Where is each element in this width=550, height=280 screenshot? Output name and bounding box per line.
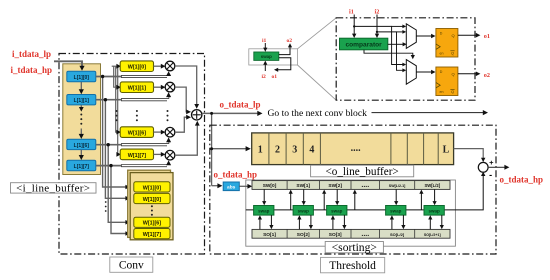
svg-text:en: en [440, 52, 444, 56]
swap symbol green box [254, 52, 279, 60]
svg-text:SW[2]: SW[2] [328, 183, 342, 189]
wire mux2 to FF2 [416, 71, 431, 73]
SO register row [252, 229, 450, 238]
dots in i_line_buffer [80, 114, 82, 116]
wire multiplier M1 to adder left-upper [175, 87, 187, 112]
arrow into W[1][7] [117, 153, 119, 155]
svg-text:<o_line_buffer>: <o_line_buffer> [325, 166, 398, 178]
dots arrow column [116, 110, 118, 112]
wire FF1 to o1 [458, 34, 476, 36]
label box sorting [325, 242, 383, 253]
comparator U-cmp [340, 38, 388, 50]
abs box [223, 182, 239, 191]
dots bundle bottom [105, 201, 107, 203]
svg-text:<sorting>: <sorting> [332, 241, 377, 254]
svg-text:W[1][1]: W[1][1] [128, 86, 146, 92]
wire L cell to subtractor [454, 149, 484, 159]
dots weight stack [151, 205, 153, 207]
svg-text:....: .... [351, 143, 362, 154]
arrow SW into swap S5 [434, 189, 436, 202]
swap box S5 [424, 206, 444, 216]
svg-text:swap: swap [428, 209, 440, 214]
label box Threshold [321, 257, 385, 272]
swap box S1 [254, 206, 274, 216]
wire abs to sorting [239, 185, 248, 187]
wire i1 down into comparator [353, 15, 355, 35]
wire bundle V3 from L-row2 down to weight stack [108, 145, 126, 223]
wire L-row2 data to multiplier [96, 144, 122, 146]
weight stack front sheet [130, 173, 173, 240]
label box i_line_buffer [11, 183, 97, 193]
arrow between L[1][6] and L[1][7] [80, 150, 82, 156]
svg-text:SO[3]: SO[3] [329, 232, 342, 238]
svg-text:1: 1 [258, 144, 263, 155]
svg-text:en: en [440, 90, 444, 94]
arrow SW into swap S4 [395, 189, 397, 202]
svg-text:i_tdata_lp: i_tdata_lp [12, 49, 51, 59]
svg-text:SO[L/2]: SO[L/2] [390, 232, 405, 237]
swap box S2 [293, 206, 313, 216]
svg-text:SW[0]: SW[0] [263, 183, 277, 189]
wire comparator to mux1 select [388, 43, 403, 45]
arrow into L[1][6] [80, 129, 82, 135]
arrow SO up into swap S1 [259, 218, 261, 229]
svg-text:L[1][6]: L[1][6] [74, 143, 90, 149]
arrow swap output up into SW (jog 2) [323, 193, 325, 210]
svg-text:o_tdata_hp: o_tdata_hp [500, 175, 544, 185]
dots W column [136, 110, 138, 112]
svg-text:i1: i1 [349, 9, 354, 16]
register L[1][6] [67, 139, 96, 149]
wire subtractor to o_tdata_hp [488, 166, 505, 168]
arrow swap output up into SW (jog 4) [420, 193, 422, 210]
o_line_buffer cell dividers [268, 133, 270, 165]
wire bundle V4 from L-row3 down to weight stack [111, 166, 126, 234]
arrow SO up into swap S4 [391, 218, 393, 229]
arrow SO up into swap S2 [298, 218, 300, 229]
arrow SW into swap S1 [263, 189, 265, 202]
weight stack back sheet [128, 170, 171, 237]
svg-text:....: .... [361, 231, 369, 238]
svg-text:o1: o1 [484, 33, 490, 40]
arrow into W[1][6] [117, 131, 119, 133]
svg-text:W[1][6]: W[1][6] [128, 131, 146, 137]
sorting outer box [246, 180, 456, 246]
svg-text:SO[1]: SO[1] [263, 232, 276, 238]
svg-text:3: 3 [292, 144, 297, 155]
svg-text:o_tdata_lp: o_tdata_lp [220, 99, 261, 109]
wire L-row3 data to multiplier [96, 165, 122, 167]
adder U-add [192, 110, 202, 120]
coefficient box W[1][1] [120, 82, 153, 93]
svg-text:W[1][0]: W[1][0] [143, 185, 161, 191]
wire mux1 to FF1 [416, 35, 431, 37]
svg-text:i2: i2 [262, 74, 267, 80]
svg-text:SO[2]: SO[2] [297, 232, 310, 238]
stack coefficient box W[1][0] r2 [134, 193, 170, 203]
arrow into W[1][1] [117, 86, 119, 88]
i_line_buffer container [63, 64, 101, 175]
stack coefficient box W[1][6] r3 [134, 217, 170, 227]
wire W-feed vertical to y132.1 [116, 66, 118, 132]
svg-text:o2: o2 [287, 38, 293, 44]
svg-text:o1: o1 [272, 74, 278, 80]
svg-text:<i_line_buffer>: <i_line_buffer> [16, 182, 90, 194]
svg-text:SO[L/2+1]: SO[L/2+1] [424, 233, 441, 237]
wire multiplier M6 to adder left-lower [175, 117, 187, 132]
block Threshold dash-dot border [210, 125, 496, 254]
svg-text:SW[L/2-1]: SW[L/2-1] [389, 184, 406, 188]
wire swap to o2 [279, 47, 290, 55]
wire bundle V2 from L-row1 down to weight stack [105, 100, 126, 199]
arrow W[1][7] to multiplier [154, 153, 162, 155]
arrow into W[1][0] [117, 65, 119, 67]
svg-text:L[1][1]: L[1][1] [74, 98, 90, 104]
svg-text:Conv: Conv [119, 260, 144, 272]
svg-text:Threshold: Threshold [329, 260, 376, 272]
wire o_tdata_lp from adder [202, 112, 258, 114]
wire i_tdata input into line buffer [54, 61, 82, 66]
o_line_buffer container [252, 133, 454, 165]
svg-text:i1: i1 [262, 38, 267, 44]
wire L-row1 data to multiplier [96, 99, 122, 101]
svg-text:swap: swap [331, 209, 343, 214]
swap symbol outer box [249, 49, 298, 65]
wire bundle V1 from L-row0 down to weight stack [103, 77, 127, 188]
wire i2 branch to mux inputs [377, 32, 403, 70]
svg-text:swap: swap [261, 54, 272, 59]
multiplier M3 [165, 150, 175, 160]
coefficient box W[1][7] [120, 149, 153, 160]
wire i2 into swap [264, 65, 266, 72]
svg-text:swap: swap [390, 209, 402, 214]
wire multiplier M0 to adder top [175, 66, 197, 105]
svg-text:Q: Q [451, 72, 454, 77]
dots multiplier column [167, 110, 169, 112]
wire W-feed vertical to y87.2 [114, 66, 118, 87]
svg-text:L[1][7]: L[1][7] [74, 164, 90, 170]
svg-text:Q: Q [451, 51, 454, 56]
register L[1][0] [67, 71, 96, 81]
arrow SO up into swap S3 [332, 218, 334, 229]
svg-text:abs: abs [227, 184, 236, 190]
svg-text:L: L [443, 144, 450, 155]
svg-text:W[1][6]: W[1][6] [143, 221, 161, 227]
subtractor node [478, 162, 488, 172]
svg-text:Q: Q [451, 89, 454, 94]
multiplier M1 [165, 82, 175, 92]
svg-text:D: D [440, 32, 443, 36]
wire i1 branch to mux inputs [354, 26, 402, 64]
arrow swap S5 down to SO [441, 215, 443, 226]
mux MX2 [406, 60, 416, 85]
arrow swap S4 down to SO [402, 215, 404, 226]
svg-text:i_tdata_hp: i_tdata_hp [11, 65, 53, 75]
SW register row [252, 181, 450, 190]
register L[1][1] [67, 95, 96, 105]
wire swap bus to subtractor [246, 175, 483, 210]
flip-flop FF1 [436, 29, 458, 58]
arrow swap output up into SW (jog 1) [290, 193, 292, 210]
svg-text:-: - [489, 170, 492, 180]
svg-text:swap: swap [298, 209, 310, 214]
wire i2 down into comparator [376, 15, 378, 35]
wire i1 into swap [264, 43, 266, 48]
coefficient box W[1][0] [120, 61, 153, 72]
multiplier M2 [165, 127, 175, 137]
arrow go to next conv block [372, 112, 484, 114]
svg-text:L[1][0]: L[1][0] [74, 75, 90, 81]
svg-text:W[1][7]: W[1][7] [143, 232, 161, 238]
wire multiplier M7 to adder bottom [175, 125, 198, 156]
wire W-feed vertical to y154.4 [117, 66, 119, 154]
detail block dash-dot border [336, 18, 475, 100]
wire into o_line_buffer [212, 148, 247, 150]
stack coefficient box W[1][7] r4 [134, 229, 170, 239]
svg-text:4: 4 [309, 144, 314, 155]
arrow swap S1 down to SO [270, 215, 272, 226]
label box o_line_buffer [311, 165, 414, 177]
register L[1][7] [67, 160, 96, 170]
arrow W[1][6] to multiplier [154, 131, 162, 133]
coefficient box W[1][6] [120, 127, 153, 138]
arrow W[1][1] to multiplier [154, 86, 162, 88]
svg-text:swap: swap [258, 209, 270, 214]
wire L-row0 data to multiplier [96, 76, 122, 78]
svg-text:SW[1]: SW[1] [296, 183, 310, 189]
stack coefficient box W[1][0] r1 [134, 182, 170, 192]
flip-flop FF2 [436, 67, 458, 96]
svg-text:comparator: comparator [345, 42, 382, 49]
arrow swap S3 down to SO [343, 215, 345, 226]
svg-text:D: D [440, 70, 443, 74]
wire FF2 to o2 [458, 73, 476, 75]
wire branch down to o_line_buffer and abs [211, 113, 213, 185]
block Conv dash-dot border [59, 54, 205, 255]
svg-text:o2: o2 [484, 72, 490, 79]
arrow W[1][0] to multiplier [154, 65, 162, 67]
svg-text:Q: Q [451, 33, 454, 38]
arrow SO up into swap S5 [429, 218, 431, 229]
swap box S4 [386, 206, 406, 216]
svg-text:SW[L/2]: SW[L/2] [425, 183, 441, 188]
wire comparator to mux2 select [364, 50, 413, 56]
svg-text:2: 2 [275, 144, 280, 155]
wire W-feed stub top [112, 65, 118, 67]
stub below L[1][1] [80, 105, 82, 108]
multiplier M0 [165, 61, 175, 71]
arrow between L[1][0] and L[1][1] [80, 82, 82, 90]
arrow swap output up into SW (jog 3) [354, 193, 356, 210]
svg-text:o_tdata_hp: o_tdata_hp [214, 169, 258, 179]
arrow swap S2 down to SO [310, 215, 312, 226]
svg-text:W[1][7]: W[1][7] [128, 153, 146, 159]
svg-text:W[1][0]: W[1][0] [143, 197, 161, 203]
svg-text:+: + [489, 158, 494, 167]
swap box S3 [327, 206, 347, 216]
svg-text:W[1][0]: W[1][0] [128, 65, 146, 71]
svg-text:....: .... [361, 182, 369, 189]
arrow SW into swap S2 [303, 189, 305, 202]
arrow SW into swap S3 [336, 189, 338, 202]
zoom connector lines [298, 18, 337, 49]
label box Conv [110, 257, 153, 272]
wire into abs [212, 185, 218, 187]
mux MX1 [406, 24, 416, 49]
wire swap to o1 [278, 58, 291, 70]
svg-text:Go to the next conv block: Go to the next conv block [268, 108, 368, 119]
